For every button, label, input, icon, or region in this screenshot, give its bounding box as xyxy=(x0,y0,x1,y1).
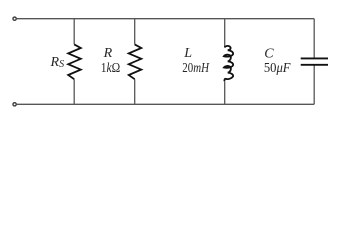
resistor R xyxy=(129,44,142,79)
wire branch R bottom xyxy=(134,79,136,104)
wire branch Rs bottom xyxy=(73,79,75,104)
wire branch C top xyxy=(313,19,315,59)
wire branch L bottom xyxy=(224,81,226,104)
wire branch R top xyxy=(134,19,136,45)
capacitor C top plate xyxy=(301,57,328,59)
capacitor C bottom plate xyxy=(301,64,328,66)
svg-text:L: L xyxy=(183,46,192,61)
svg-text:20mH: 20mH xyxy=(182,61,209,76)
svg-text:R: R xyxy=(103,46,113,61)
terminal top-left xyxy=(13,17,16,20)
svg-text:RS: RS xyxy=(50,55,65,70)
wire branch Rs top xyxy=(73,19,75,45)
svg-text:1kΩ: 1kΩ xyxy=(101,61,121,76)
terminal bottom-left xyxy=(13,103,16,106)
inductor L coil xyxy=(224,46,233,81)
wire top horizontal xyxy=(17,18,314,20)
wire bottom horizontal xyxy=(17,103,314,105)
wire branch C bottom xyxy=(313,65,315,105)
resistor RS xyxy=(68,44,81,79)
wire branch L top xyxy=(224,19,226,48)
svg-text:50μF: 50μF xyxy=(264,61,291,76)
svg-text:C: C xyxy=(264,46,274,61)
